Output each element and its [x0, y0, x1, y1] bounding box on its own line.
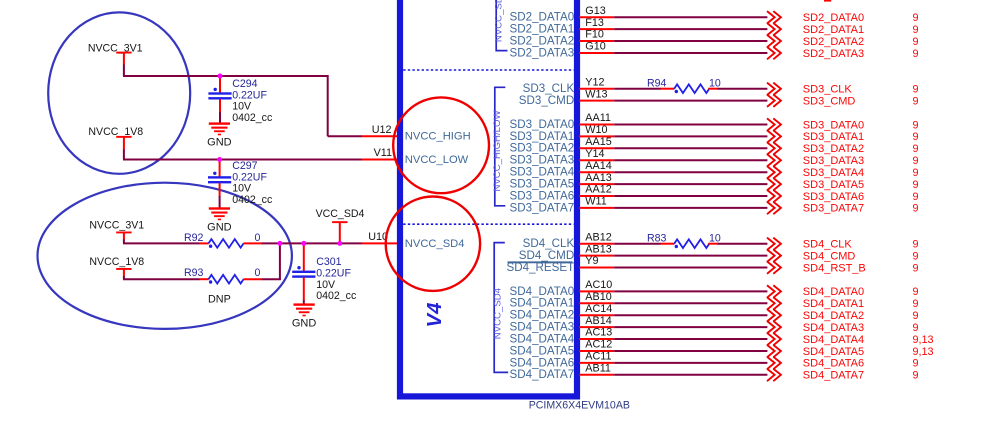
svg-text:SD2_DATA3: SD2_DATA3: [510, 46, 575, 59]
wire to R92: [123, 240, 125, 244]
svg-text:AC12: AC12: [585, 339, 612, 351]
wire R83 to off-page: [718, 243, 768, 245]
svg-text:V11: V11: [374, 147, 392, 159]
svg-text:AB12: AB12: [585, 231, 611, 243]
svg-text:SD4_RST_B: SD4_RST_B: [803, 262, 866, 274]
svg-text:SD3_DATA7: SD3_DATA7: [510, 201, 575, 214]
svg-text:VCC_SD4: VCC_SD4: [316, 208, 365, 220]
svg-text:SD4_CMD: SD4_CMD: [803, 250, 856, 262]
pin G10 stub: [579, 52, 614, 54]
off-page connector SD4_DATA6: [767, 357, 781, 369]
pin AA11 stub: [579, 124, 614, 126]
pin F13 stub: [579, 28, 614, 30]
svg-text:R93: R93: [184, 267, 204, 279]
pin AC11 stub: [579, 362, 614, 364]
svg-text:9: 9: [913, 48, 919, 60]
svg-text:NVCC_LOW: NVCC_LOW: [405, 154, 469, 166]
svg-text:SD3_DATA4: SD3_DATA4: [803, 167, 864, 179]
wire SD4_DATA3: [614, 326, 767, 328]
resistor R83 left lead: [661, 243, 675, 245]
wire SD3_CLK pin to R94: [614, 88, 661, 90]
resistor R93 left lead: [199, 278, 208, 280]
svg-text:9: 9: [913, 322, 919, 334]
wire NVCC_1V8 vertical stub: [123, 150, 125, 160]
resistor R94 right lead: [708, 88, 718, 90]
resistor R92: [209, 239, 244, 248]
pin AA14 stub: [579, 171, 614, 173]
svg-text:SD3_CMD: SD3_CMD: [519, 94, 574, 107]
off-page connector SD4_DATA4: [767, 333, 781, 345]
svg-text:9: 9: [913, 262, 919, 274]
junction VCC_SD4: [337, 241, 342, 246]
resistor R94: [674, 84, 709, 93]
resistor R94 left lead: [661, 88, 675, 90]
svg-text:SD2_DATA0: SD2_DATA0: [803, 12, 864, 24]
svg-text:9: 9: [913, 191, 919, 203]
off-page connector SD4_DATA3: [767, 321, 781, 333]
svg-text:SD4_DATA7: SD4_DATA7: [803, 370, 864, 382]
svg-text:10V: 10V: [316, 279, 336, 291]
pin V11 stub: [362, 159, 398, 161]
svg-text:GND: GND: [207, 136, 232, 148]
svg-text:SD2_DATA1: SD2_DATA1: [803, 24, 864, 36]
wire to R93: [123, 276, 125, 279]
wire SD2_DATA0: [614, 16, 767, 18]
resistor R92 right lead: [244, 242, 263, 244]
off-page connector SD4_DATA2: [767, 309, 781, 321]
svg-text:AB10: AB10: [585, 291, 611, 303]
pin G13 stub: [579, 16, 614, 18]
power NVCC_1V8 (upper): [88, 126, 143, 150]
wire NVCC_3V1 horizontal: [123, 75, 328, 77]
resistor R93: [209, 275, 244, 284]
svg-text:NVCC_1V8: NVCC_1V8: [89, 256, 144, 268]
wire NVCC_3V1 vertical stub: [123, 65, 125, 77]
off-page connector SD4_CLK: [767, 238, 781, 250]
svg-text:SD3_DATA3: SD3_DATA3: [803, 155, 864, 167]
pin AA12 stub: [579, 195, 614, 197]
svg-text:9: 9: [913, 95, 919, 107]
svg-text:0.22UF: 0.22UF: [232, 171, 267, 183]
off-page connector SD2_DATA3: [767, 47, 781, 59]
svg-text:Y14: Y14: [585, 148, 604, 160]
svg-text:SD2_DATA2: SD2_DATA2: [803, 36, 864, 48]
svg-text:9: 9: [913, 167, 919, 179]
IC body PCIMX6X4EVM10AB: [400, 0, 577, 396]
off-page connector SD4_RST_B: [767, 261, 781, 273]
svg-text:SD4_DATA1: SD4_DATA1: [803, 298, 864, 310]
svg-text:9: 9: [913, 239, 919, 251]
svg-text:9: 9: [913, 143, 919, 155]
svg-text:10V: 10V: [232, 101, 252, 113]
capacitor C297: [208, 172, 231, 184]
svg-text:SD4_DATA7: SD4_DATA7: [510, 368, 575, 381]
svg-text:AA12: AA12: [585, 184, 611, 196]
svg-text:NVCC_1V8: NVCC_1V8: [88, 126, 143, 138]
annotation ellipse (NVCC_3V1/NVCC_1V8 group): [48, 12, 190, 173]
svg-text:9: 9: [913, 179, 919, 191]
svg-text:GND: GND: [292, 317, 317, 329]
wire SD2_DATA2: [614, 40, 767, 42]
svg-text:Y12: Y12: [585, 76, 604, 88]
svg-text:9: 9: [913, 131, 919, 143]
power NVCC_1V8 (lower): [89, 256, 144, 276]
pin F10 stub: [579, 40, 614, 42]
svg-text:NVCC_SD4: NVCC_SD4: [405, 238, 465, 250]
capacitor C297 lead upper: [219, 160, 221, 177]
svg-text:SD4_DATA3: SD4_DATA3: [803, 322, 864, 334]
svg-text:10V: 10V: [232, 183, 252, 195]
svg-text:AC10: AC10: [585, 279, 612, 291]
svg-text:G10: G10: [585, 41, 605, 53]
svg-text:SD3_DATA7: SD3_DATA7: [803, 203, 864, 215]
power VCC_SD4: [316, 208, 365, 243]
pin AB13 stub: [579, 255, 614, 257]
pin W11 stub: [579, 207, 614, 209]
svg-text:AC14: AC14: [585, 303, 612, 315]
IC power-section divider 1: [403, 69, 574, 71]
svg-text:9,13: 9,13: [913, 346, 934, 358]
wire SD3_DATA7: [614, 207, 767, 209]
svg-text:9: 9: [913, 203, 919, 215]
wire SD4_DATA1: [614, 302, 767, 304]
svg-text:9: 9: [913, 298, 919, 310]
svg-text:NVCC_HIGH/LOW: NVCC_HIGH/LOW: [492, 110, 503, 192]
svg-text:W10: W10: [585, 124, 607, 136]
wire SD2_DATA3: [614, 52, 767, 54]
svg-text:AA11: AA11: [585, 112, 611, 124]
wire SD4_RST_B: [614, 267, 767, 269]
wire NVCC_1V8 horizontal (V11 net): [123, 159, 362, 161]
svg-text:SD4_DATA5: SD4_DATA5: [803, 346, 864, 358]
svg-text:AB11: AB11: [585, 363, 611, 375]
off-page connector SD2_DATA0: [767, 11, 781, 23]
pin AC10 stub: [579, 290, 614, 292]
svg-text:NVCC_HIGH: NVCC_HIGH: [405, 130, 471, 142]
wire SD4_DATA6: [614, 362, 767, 364]
svg-text:0.22UF: 0.22UF: [316, 268, 351, 280]
off-page connector SD3_DATA1: [767, 130, 781, 142]
svg-text:U12: U12: [372, 124, 392, 136]
wire SD3_DATA0: [614, 124, 767, 126]
pin U10 stub: [362, 242, 398, 244]
pin AB11 stub: [579, 374, 614, 376]
bracket NVCC_HIGH/LOW group: [495, 87, 506, 206]
svg-text:PCIMX6X4EVM10AB: PCIMX6X4EVM10AB: [529, 399, 630, 411]
svg-text:F10: F10: [585, 29, 604, 41]
svg-text:AC11: AC11: [585, 351, 611, 363]
svg-text:AC13: AC13: [585, 327, 612, 339]
pin U12 stub: [362, 135, 398, 137]
annotation ellipse (R92/R93 DNP group): [38, 183, 292, 329]
off-page connector SD4_DATA5: [767, 345, 781, 357]
clipped net label fragment (top edge): [824, 0, 831, 2]
power NVCC_3V1 (upper): [88, 43, 143, 66]
svg-text:SD4_CLK: SD4_CLK: [803, 239, 853, 251]
junction R93/R92 net: [277, 241, 282, 246]
wire C294 to ground: [219, 112, 221, 123]
wire SD3_DATA2: [614, 147, 767, 149]
pin AA15 stub: [579, 147, 614, 149]
svg-text:9: 9: [913, 286, 919, 298]
off-page connector SD3_CMD: [767, 95, 781, 107]
svg-text:C297: C297: [232, 160, 257, 172]
wire SD4_DATA0: [614, 290, 767, 292]
svg-text:9: 9: [913, 36, 919, 48]
wire SD4_CMD: [614, 255, 767, 257]
svg-text:SD3_DATA5: SD3_DATA5: [803, 179, 864, 191]
pin AB14 stub: [579, 326, 614, 328]
svg-text:SD4_DATA6: SD4_DATA6: [803, 358, 864, 370]
wire R94 to off-page: [718, 88, 768, 90]
off-page connector SD3_DATA2: [767, 142, 781, 154]
wire NVCC_3V1 corner down: [327, 75, 329, 136]
svg-text:AA13: AA13: [585, 172, 611, 184]
wire R92 output to U10: [262, 242, 362, 244]
svg-text:0402_cc: 0402_cc: [316, 290, 357, 302]
svg-text:9: 9: [913, 250, 919, 262]
off-page connector SD4_CMD: [767, 250, 781, 262]
svg-text:0402_cc: 0402_cc: [232, 194, 273, 206]
svg-text:AB13: AB13: [585, 243, 611, 255]
svg-text:F13: F13: [585, 17, 604, 29]
wire SD4_DATA4: [614, 338, 767, 340]
off-page connector SD3_DATA5: [767, 178, 781, 190]
resistor R93 right lead: [244, 278, 263, 280]
off-page connector SD3_DATA0: [767, 118, 781, 130]
off-page connector SD3_DATA4: [767, 166, 781, 178]
svg-text:W13: W13: [585, 88, 607, 100]
wire C297 to ground: [219, 196, 221, 208]
wire SD3_DATA5: [614, 183, 767, 185]
IC power-section divider 2: [403, 223, 574, 225]
wire SD4_CLK pin to R83: [614, 243, 661, 245]
pin AA13 stub: [579, 183, 614, 185]
svg-text:10: 10: [709, 77, 721, 89]
svg-text:9: 9: [913, 84, 919, 96]
capacitor C297 lead lower: [219, 183, 221, 196]
svg-text:NVCC_3V1: NVCC_3V1: [89, 220, 144, 232]
svg-text:0.22UF: 0.22UF: [232, 89, 267, 101]
svg-text:NVCC_SD2: NVCC_SD2: [494, 0, 505, 42]
junction C301: [301, 241, 306, 246]
pin Y14 stub: [579, 159, 614, 161]
svg-text:R94: R94: [647, 77, 667, 89]
svg-text:DNP: DNP: [208, 294, 231, 306]
off-page connector SD2_DATA2: [767, 35, 781, 47]
svg-text:9: 9: [913, 119, 919, 131]
highlight circle NVCC_SD4: [386, 197, 480, 291]
svg-text:9: 9: [913, 358, 919, 370]
wire SD3_DATA3: [614, 159, 767, 161]
wire SD3_DATA4: [614, 171, 767, 173]
svg-text:0: 0: [255, 232, 261, 244]
svg-text:SD2_DATA3: SD2_DATA3: [803, 48, 864, 60]
off-page connector SD3_DATA7: [767, 202, 781, 214]
svg-text:SD3_CLK: SD3_CLK: [803, 84, 853, 96]
svg-text:V4: V4: [424, 303, 446, 328]
off-page connector SD4_DATA7: [767, 369, 781, 381]
junction C297/NVCC_1V8: [217, 157, 222, 162]
pin AC14 stub: [579, 314, 614, 316]
svg-text:AA14: AA14: [585, 160, 611, 172]
ground GND (C301): [292, 303, 317, 329]
svg-text:Y9: Y9: [585, 255, 598, 267]
off-page connector SD4_DATA1: [767, 297, 781, 309]
capacitor C294 lead upper: [219, 76, 221, 93]
off-page connector SD2_DATA1: [767, 23, 781, 35]
active-low overbar SD4_RESET: [508, 261, 573, 263]
resistor R83: [674, 239, 709, 248]
svg-text:SD4_DATA4: SD4_DATA4: [803, 334, 864, 346]
svg-text:9: 9: [913, 24, 919, 36]
wire SD3_DATA1: [614, 135, 767, 137]
pin Y9 stub: [579, 267, 614, 269]
wire SD4_DATA7: [614, 374, 767, 376]
svg-text:SD3_DATA6: SD3_DATA6: [803, 191, 864, 203]
wire SD3_DATA6: [614, 195, 767, 197]
svg-text:10: 10: [709, 232, 721, 244]
svg-text:SD3_CMD: SD3_CMD: [803, 95, 856, 107]
pin AC13 stub: [579, 338, 614, 340]
capacitor C301 lead lower: [303, 278, 305, 301]
svg-text:C294: C294: [232, 78, 257, 90]
svg-text:9,13: 9,13: [913, 334, 934, 346]
capacitor C301 lead upper: [303, 243, 305, 271]
wire SD4_DATA5: [614, 350, 767, 352]
svg-text:SD4_DATA2: SD4_DATA2: [803, 310, 864, 322]
svg-text:AA15: AA15: [585, 136, 611, 148]
off-page connector SD3_CLK: [767, 83, 781, 95]
wire SD4_DATA2: [614, 314, 767, 316]
wire to U12 pin: [328, 135, 362, 137]
svg-text:AB14: AB14: [585, 315, 611, 327]
capacitor C301: [292, 266, 315, 278]
svg-text:0402_cc: 0402_cc: [232, 112, 273, 124]
svg-text:W11: W11: [585, 196, 606, 208]
svg-text:SD4_DATA0: SD4_DATA0: [803, 286, 864, 298]
capacitor C294: [208, 88, 231, 100]
svg-text:9: 9: [913, 310, 919, 322]
wire R93 output up: [262, 278, 281, 280]
svg-text:R92: R92: [184, 232, 204, 244]
resistor R83 right lead: [708, 243, 718, 245]
resistor R92 left lead: [199, 242, 208, 244]
pin AC12 stub: [579, 350, 614, 352]
ground GND (C294): [207, 122, 232, 148]
wire C301 to ground: [303, 300, 305, 303]
capacitor C294 lead lower: [219, 99, 221, 112]
pin Y12 stub: [579, 88, 614, 90]
svg-text:R83: R83: [647, 232, 667, 244]
junction C294/NVCC_3V1: [218, 74, 223, 79]
svg-text:9: 9: [913, 12, 919, 24]
svg-text:SD3_DATA2: SD3_DATA2: [803, 143, 864, 155]
power NVCC_3V1 (lower): [89, 220, 144, 241]
wire SD2_DATA1: [614, 28, 767, 30]
pin W13 stub: [579, 100, 614, 102]
off-page connector SD3_DATA3: [767, 154, 781, 166]
off-page connector SD3_DATA6: [767, 190, 781, 202]
svg-text:SD3_DATA1: SD3_DATA1: [803, 131, 864, 143]
svg-text:G13: G13: [585, 5, 605, 17]
svg-text:9: 9: [913, 155, 919, 167]
bracket NVCC_SD4 group: [494, 243, 508, 373]
pin W10 stub: [579, 135, 614, 137]
svg-text:C301: C301: [316, 256, 341, 268]
pin AB12 stub: [579, 243, 614, 245]
svg-text:9: 9: [913, 370, 919, 382]
svg-text:NVCC_3V1: NVCC_3V1: [88, 43, 143, 55]
ground GND (C297): [207, 207, 232, 233]
wire SD3_CMD: [614, 100, 767, 102]
highlight circle NVCC_HIGH/NVCC_LOW: [393, 97, 489, 193]
svg-text:GND: GND: [207, 221, 232, 233]
pin AB10 stub: [579, 302, 614, 304]
svg-text:NVCC_SD4: NVCC_SD4: [493, 287, 504, 339]
svg-text:SD3_DATA0: SD3_DATA0: [803, 119, 864, 131]
off-page connector SD4_DATA0: [767, 285, 781, 297]
svg-text:0: 0: [255, 267, 261, 279]
bracket NVCC_SD2 group: [496, 0, 507, 51]
